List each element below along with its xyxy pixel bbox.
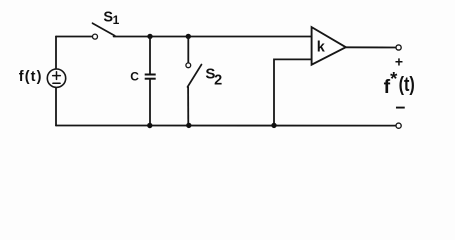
capacitor C lower wire [149, 79, 151, 126]
node junction capacitor top [147, 34, 152, 39]
svg-text:−: − [395, 98, 405, 118]
voltage source f(t) circle [47, 69, 65, 87]
amplifier U1 triangle gain k [312, 27, 346, 65]
svg-text:C: C [130, 70, 139, 84]
node junction capacitor bottom [147, 123, 152, 128]
wire amplifier output [346, 46, 396, 48]
svg-text:2: 2 [214, 73, 222, 89]
output terminal bottom [396, 123, 401, 128]
wire riser to amplifier lower input [274, 59, 312, 125]
switch S1 contact circle [93, 34, 98, 39]
switch S2 blade [188, 65, 202, 88]
switch S2 contact circle [186, 63, 191, 68]
capacitor C upper wire [149, 37, 151, 75]
svg-text:k: k [317, 40, 326, 56]
wire left vertical lower [55, 88, 57, 126]
svg-text:1: 1 [113, 13, 120, 27]
wire bottom rail [56, 125, 396, 127]
capacitor C plates [145, 75, 156, 79]
wire top rail left segment [56, 36, 92, 38]
node junction S2 bottom [186, 123, 191, 128]
svg-text:(t): (t) [399, 74, 415, 96]
switch S1 blade [93, 23, 115, 36]
voltage source plus-minus marks [53, 72, 61, 83]
svg-text:*: * [390, 68, 398, 89]
output terminal top [396, 45, 401, 50]
node junction S2 top [186, 34, 191, 39]
wire top rail right segment [114, 36, 312, 38]
node junction riser bottom [271, 123, 276, 128]
svg-text:f(t): f(t) [19, 69, 43, 85]
switch S2 upper wire [187, 37, 189, 63]
wire left vertical upper [55, 37, 57, 69]
switch S2 lower wire [187, 87, 189, 126]
